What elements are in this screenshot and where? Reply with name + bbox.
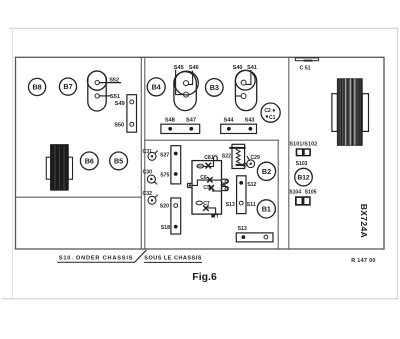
adjuster X C81 bbox=[206, 163, 211, 168]
svg-text:S44: S44 bbox=[224, 118, 235, 124]
hole S13 right bbox=[264, 235, 268, 239]
terminal strip S12/S11 bbox=[237, 176, 246, 214]
wire S45 lead bbox=[176, 70, 184, 94]
svg-text:S40: S40 bbox=[233, 65, 243, 71]
page scan edge top bbox=[10, 27, 398, 29]
svg-text:B8: B8 bbox=[32, 83, 41, 92]
middle lower box left edge bbox=[144, 140, 146, 249]
svg-text:C2: C2 bbox=[264, 108, 271, 114]
output transformer (left, dark) bbox=[51, 145, 69, 190]
tube B5 bbox=[110, 152, 128, 170]
terminal strip S13 bbox=[236, 233, 273, 242]
wire S41 lead bbox=[246, 70, 251, 84]
svg-text:B7: B7 bbox=[63, 82, 72, 91]
transformer bracket right bbox=[68, 157, 72, 179]
adjuster X C7 bbox=[204, 206, 208, 211]
svg-text:S46: S46 bbox=[189, 65, 199, 71]
wire S51 leader bbox=[99, 95, 110, 97]
wire S40 lead bbox=[236, 95, 241, 97]
capacitor C29 bbox=[247, 160, 255, 168]
svg-text:C30: C30 bbox=[143, 169, 153, 175]
svg-text:BX724A: BX724A bbox=[359, 204, 369, 238]
adjuster X C5 bbox=[209, 186, 213, 190]
tube B3 bbox=[206, 79, 224, 97]
svg-text:S105: S105 bbox=[305, 190, 317, 196]
svg-text:B2: B2 bbox=[262, 167, 271, 176]
svg-text:Fig.6: Fig.6 bbox=[192, 271, 217, 283]
right tab 2 bbox=[222, 186, 229, 190]
mains transformer bracket left bbox=[332, 94, 338, 132]
hole S50 bbox=[130, 122, 134, 126]
tube B7 bbox=[59, 78, 76, 95]
svg-text:S50: S50 bbox=[114, 122, 124, 128]
terminal S45 pin bbox=[184, 92, 189, 97]
svg-text:C81: C81 bbox=[204, 155, 214, 161]
coil S22 bottom bar bbox=[237, 164, 244, 166]
middle lower box right edge bbox=[277, 140, 279, 249]
terminal strip S20/S18 bbox=[171, 198, 181, 234]
svg-text:S27: S27 bbox=[160, 152, 169, 158]
capacitor C2/C1 can bbox=[261, 103, 280, 122]
mains transformer body bbox=[337, 79, 362, 146]
underline bbox=[145, 261, 202, 263]
hole S11 bbox=[239, 201, 243, 205]
solder pad S47 bbox=[189, 127, 193, 131]
divider left box right edge bbox=[140, 57, 142, 249]
terminal strip S49/S50 bbox=[127, 95, 137, 133]
coil S22 winding bbox=[236, 150, 240, 164]
solder pad S18 bbox=[174, 225, 178, 229]
right tab 1 bbox=[222, 179, 229, 183]
hole S49 bbox=[130, 100, 134, 104]
wire C7 run bbox=[208, 208, 216, 214]
svg-text:S51: S51 bbox=[110, 94, 120, 100]
wire C5 run bbox=[213, 190, 222, 192]
middle lower box top edge bbox=[145, 139, 278, 141]
terminal S41 pin bbox=[241, 80, 246, 85]
electrolytic can top circle bbox=[87, 71, 106, 90]
solder pad S13 left bbox=[242, 235, 246, 239]
valve can A top circle bbox=[175, 71, 199, 95]
terminal S46 pin bbox=[184, 81, 189, 86]
capacitor C51 tab bbox=[295, 58, 318, 61]
terminal S52 bbox=[95, 80, 99, 84]
terminal S40 pin bbox=[241, 94, 246, 99]
valve can B body bbox=[235, 70, 256, 110]
coil S22 body bbox=[232, 144, 245, 168]
svg-text:S10. ONDER CHASSIS: S10. ONDER CHASSIS bbox=[59, 255, 133, 261]
solder pad S75 bbox=[174, 172, 178, 176]
electrolytic can (left, obround body) bbox=[88, 71, 106, 111]
svg-text:C 51: C 51 bbox=[300, 65, 311, 71]
divider middle/right bbox=[288, 57, 290, 249]
svg-text:S43: S43 bbox=[245, 118, 255, 124]
svg-text:C1: C1 bbox=[269, 115, 276, 121]
svg-text:S103: S103 bbox=[296, 161, 308, 167]
adjuster X C6 bbox=[208, 178, 212, 183]
svg-text:B1: B1 bbox=[262, 205, 271, 214]
page scan edge right bbox=[396, 28, 398, 299]
tube B12 bbox=[295, 168, 313, 186]
wire C29 tick bbox=[247, 156, 249, 160]
transformer bracket left bbox=[46, 157, 50, 179]
wire C81 loop bbox=[214, 156, 218, 161]
fuse holder S104/S105 bbox=[295, 196, 311, 205]
svg-text:S48: S48 bbox=[165, 118, 175, 124]
tube B1 bbox=[257, 200, 275, 218]
svg-text:S11: S11 bbox=[247, 202, 256, 208]
wire S52 leader bbox=[99, 82, 120, 84]
svg-text:S18: S18 bbox=[161, 225, 170, 231]
coil S22 top bar bbox=[230, 147, 244, 149]
solder pad S48 bbox=[168, 127, 172, 131]
leader diagonal bbox=[135, 250, 146, 262]
svg-text:S13: S13 bbox=[238, 226, 247, 232]
terminal strip S48/S47 bbox=[161, 124, 200, 133]
svg-text:S22: S22 bbox=[222, 154, 231, 160]
svg-text:S52: S52 bbox=[109, 78, 119, 84]
tube B4 bbox=[147, 78, 165, 96]
tube B6 bbox=[80, 152, 98, 170]
trimmer oval top bbox=[197, 164, 204, 168]
svg-text:S75: S75 bbox=[160, 173, 169, 179]
left box inner shelf line bbox=[16, 196, 142, 198]
terminal strip S27/S75 bbox=[171, 146, 181, 184]
svg-text:C31: C31 bbox=[143, 149, 153, 155]
chassis outer box bbox=[16, 57, 385, 249]
terminal strip S44/S43 bbox=[221, 124, 257, 133]
svg-text:B12: B12 bbox=[297, 175, 309, 182]
svg-text:S101/S102: S101/S102 bbox=[289, 142, 317, 148]
left tab bbox=[188, 183, 192, 187]
tuning unit sub-box bbox=[192, 161, 222, 215]
tube B8 bbox=[28, 78, 45, 95]
tube B2 bbox=[257, 162, 275, 180]
page scan edge bottom bbox=[2, 298, 398, 300]
valve can A body bbox=[174, 72, 196, 111]
svg-text:S104: S104 bbox=[289, 190, 301, 196]
fuse holder S101/S102 bbox=[296, 148, 311, 156]
solder pad S12 bbox=[239, 181, 243, 185]
terminal S51 bbox=[95, 94, 99, 98]
underline bbox=[58, 261, 135, 263]
valve can B top circle bbox=[235, 70, 255, 90]
solder pad S44 bbox=[227, 127, 231, 131]
svg-text:S47: S47 bbox=[186, 118, 196, 124]
trimmer oval C7 bbox=[196, 201, 202, 205]
hole S20 bbox=[174, 204, 178, 208]
wire top run bbox=[204, 161, 214, 167]
page scan edge left bbox=[11, 28, 13, 298]
solder pad S43 bbox=[249, 127, 253, 131]
divider middle box left edge bbox=[144, 57, 146, 140]
svg-text:S13: S13 bbox=[226, 202, 235, 208]
svg-text:SOUS LE CHASSIS: SOUS LE CHASSIS bbox=[144, 255, 202, 261]
svg-text:S12: S12 bbox=[247, 182, 256, 188]
solder pad S27 bbox=[174, 152, 178, 156]
mains transformer bracket right bbox=[362, 94, 368, 132]
svg-text:S49: S49 bbox=[115, 101, 125, 107]
svg-text:B3: B3 bbox=[210, 83, 219, 92]
wire S46 tick bbox=[189, 71, 193, 84]
right stub bbox=[222, 184, 225, 186]
svg-text:B6: B6 bbox=[85, 157, 94, 166]
svg-text:B4: B4 bbox=[152, 83, 161, 92]
svg-text:R 147 00: R 147 00 bbox=[351, 258, 376, 264]
svg-text:S20: S20 bbox=[160, 203, 169, 209]
bottom tab bbox=[211, 214, 218, 217]
svg-text:B5: B5 bbox=[114, 157, 123, 166]
wire mid run bbox=[192, 180, 222, 185]
